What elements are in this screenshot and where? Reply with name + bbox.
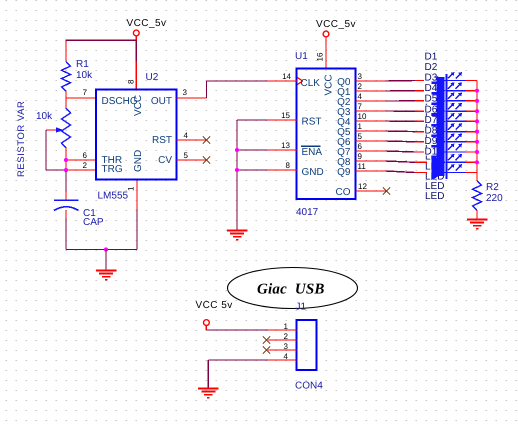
svg-text:CLK: CLK	[301, 78, 321, 89]
svg-text:Q9: Q9	[337, 167, 351, 178]
node pin7	[66, 97, 96, 99]
svg-text:16: 16	[316, 52, 325, 61]
svg-text:VCC_5v: VCC_5v	[127, 18, 167, 29]
ellipse Giac USB	[228, 268, 358, 309]
svg-text:TRG: TRG	[102, 164, 123, 175]
svg-text:5: 5	[358, 132, 363, 141]
wire	[65, 91, 67, 98]
wire	[66, 249, 137, 251]
svg-text:11: 11	[358, 162, 367, 171]
wire	[65, 148, 67, 172]
svg-text:3: 3	[358, 72, 363, 81]
svg-text:D5: D5	[425, 94, 438, 105]
svg-text:VCC: VCC	[324, 74, 335, 95]
svg-text:VCC: VCC	[133, 95, 144, 116]
wire	[135, 40, 137, 61]
svg-text:D1: D1	[425, 52, 438, 63]
svg-text:2: 2	[83, 161, 88, 170]
label D8	[424, 126, 437, 134]
svg-text:ENA: ENA	[302, 147, 323, 158]
pin5 CV stub	[177, 159, 207, 161]
label LED	[425, 103, 444, 111]
svg-text:D3: D3	[425, 73, 438, 84]
svg-text:R1: R1	[76, 59, 89, 70]
junction	[235, 168, 239, 172]
resistor R2 220	[473, 181, 482, 210]
svg-text:7: 7	[83, 88, 88, 97]
svg-text:1: 1	[284, 322, 289, 331]
svg-text:D2: D2	[425, 62, 438, 73]
wire	[65, 210, 67, 218]
LED D2	[415, 90, 427, 92]
wire	[208, 359, 268, 361]
svg-text:VCC_5v: VCC_5v	[316, 19, 356, 30]
svg-text:14: 14	[282, 72, 291, 81]
ground	[227, 230, 248, 232]
label D10	[424, 147, 437, 155]
LED D6	[415, 131, 427, 133]
no-connect X	[203, 156, 210, 163]
label LED	[425, 162, 444, 170]
svg-text:LM555: LM555	[98, 191, 129, 202]
cathode bus wire	[476, 81, 478, 182]
label LED	[425, 143, 444, 151]
label D3	[424, 74, 437, 82]
svg-text:U2: U2	[146, 72, 159, 83]
no-connect X	[263, 346, 270, 353]
svg-text:U1: U1	[295, 51, 308, 62]
pin4 stub	[268, 359, 297, 361]
pin3 stub	[268, 349, 297, 351]
svg-text:4017: 4017	[296, 207, 319, 218]
wire	[476, 210, 478, 219]
capacitor C1	[54, 199, 79, 201]
svg-text:GND: GND	[133, 150, 144, 172]
label LED	[425, 133, 444, 141]
wire	[66, 39, 136, 41]
label D6	[424, 105, 437, 113]
junction	[235, 148, 239, 152]
pin15 RST stub	[267, 119, 297, 121]
svg-text:RESISTOR VAR: RESISTOR VAR	[16, 101, 27, 177]
wire	[135, 36, 137, 41]
svg-text:R2: R2	[486, 182, 499, 193]
svg-text:1: 1	[358, 122, 363, 131]
svg-text:LED: LED	[425, 191, 444, 202]
label D1	[424, 53, 437, 61]
svg-text:RST: RST	[152, 135, 172, 146]
label D7	[424, 116, 437, 124]
potentiometer 10k	[65, 98, 67, 108]
resistor R1	[65, 42, 67, 62]
svg-text:D9: D9	[425, 136, 438, 147]
wire pin16 stub	[325, 37, 327, 69]
LED D7	[415, 141, 427, 143]
svg-text:GND: GND	[302, 167, 324, 178]
wire OUT to CLK	[206, 81, 208, 98]
svg-text:D6: D6	[425, 104, 438, 115]
node pin6	[66, 159, 96, 161]
pin2 stub	[268, 339, 297, 341]
svg-text:VCC 5v: VCC 5v	[196, 300, 233, 311]
wire wiper	[45, 130, 47, 170]
svg-text:6: 6	[358, 142, 363, 151]
pin1 stub	[268, 329, 297, 331]
svg-text:J1: J1	[296, 302, 307, 313]
svg-text:10k: 10k	[76, 70, 93, 81]
svg-text:D7: D7	[425, 115, 438, 126]
label D9	[424, 137, 437, 145]
svg-text:8: 8	[127, 79, 136, 84]
LED D3	[415, 100, 427, 102]
no-connect X	[383, 187, 390, 194]
svg-text:1: 1	[127, 186, 136, 191]
svg-text:D8: D8	[425, 125, 438, 136]
svg-text:4: 4	[358, 92, 363, 101]
svg-text:CV: CV	[158, 155, 172, 166]
svg-text:4: 4	[184, 131, 189, 140]
svg-text:CO: CO	[336, 187, 351, 198]
svg-text:CAP: CAP	[83, 217, 104, 228]
wire	[205, 325, 207, 330]
power VCC 5v	[204, 320, 210, 326]
svg-text:220: 220	[486, 193, 503, 204]
label D4	[424, 84, 437, 92]
LED D4	[415, 110, 427, 112]
wire pin8 stub	[135, 61, 137, 90]
clock wedge	[298, 78, 303, 85]
junction	[64, 168, 68, 172]
LED D1	[415, 80, 427, 82]
svg-text:D4: D4	[425, 83, 438, 94]
power VCC_5v (4017)	[323, 31, 329, 37]
svg-text:3: 3	[284, 342, 289, 351]
svg-text:8: 8	[286, 161, 291, 170]
LED D8	[415, 151, 427, 153]
label LED	[425, 172, 444, 180]
LED body column fill	[437, 77, 445, 176]
svg-text:CON4: CON4	[295, 381, 323, 392]
svg-text:10: 10	[358, 112, 367, 121]
svg-text:5: 5	[184, 151, 189, 160]
svg-text:13: 13	[281, 141, 290, 150]
svg-text:7: 7	[358, 102, 363, 111]
no-connect X	[203, 136, 210, 143]
wire RST/ENA/GND bus	[237, 119, 267, 121]
svg-text:10k: 10k	[36, 111, 53, 122]
svg-text:15: 15	[281, 111, 290, 120]
label D5	[424, 95, 437, 103]
svg-text:2: 2	[358, 82, 363, 91]
svg-text:2: 2	[284, 332, 289, 341]
node pin2	[66, 169, 96, 171]
label LED	[425, 113, 444, 121]
label LED	[425, 182, 444, 190]
svg-text:4: 4	[284, 352, 289, 361]
junction	[104, 247, 108, 251]
svg-text:OUT: OUT	[151, 96, 172, 107]
pin12 CO stub	[356, 190, 386, 192]
wire	[65, 171, 67, 192]
junctions on bus	[475, 89, 479, 93]
pin13 ENA stub	[267, 149, 297, 151]
svg-text:6: 6	[83, 151, 88, 160]
LED D5	[415, 120, 427, 122]
op-amp U2 LM555 body	[96, 90, 177, 180]
label LED	[425, 192, 444, 200]
ground	[105, 250, 107, 271]
svg-text:RST: RST	[302, 117, 322, 128]
pin3 OUT stub	[177, 97, 207, 99]
svg-text:3: 3	[183, 88, 188, 97]
ground	[467, 219, 488, 221]
label D2	[424, 63, 437, 71]
LED anode wires from Q outputs	[386, 80, 416, 83]
pin14 CLK stub	[267, 80, 297, 82]
counter U1 4017 body	[297, 69, 356, 200]
power VCC_5v (555)	[133, 30, 139, 36]
no-connect X	[263, 336, 270, 343]
junction	[64, 158, 68, 162]
LED D9	[415, 161, 427, 163]
ground	[198, 388, 219, 390]
LED D10	[415, 172, 427, 174]
svg-text:9: 9	[358, 152, 363, 161]
svg-text:Giac USB: Giac USB	[257, 282, 325, 298]
pin8 GND stub	[267, 169, 297, 171]
label LED	[425, 153, 444, 161]
svg-text:12: 12	[358, 182, 367, 191]
connector J1 CON4 body	[297, 320, 317, 370]
label LED	[425, 123, 444, 131]
wire pin1 GND stub	[136, 180, 138, 210]
pin4 RST stub	[177, 139, 207, 141]
